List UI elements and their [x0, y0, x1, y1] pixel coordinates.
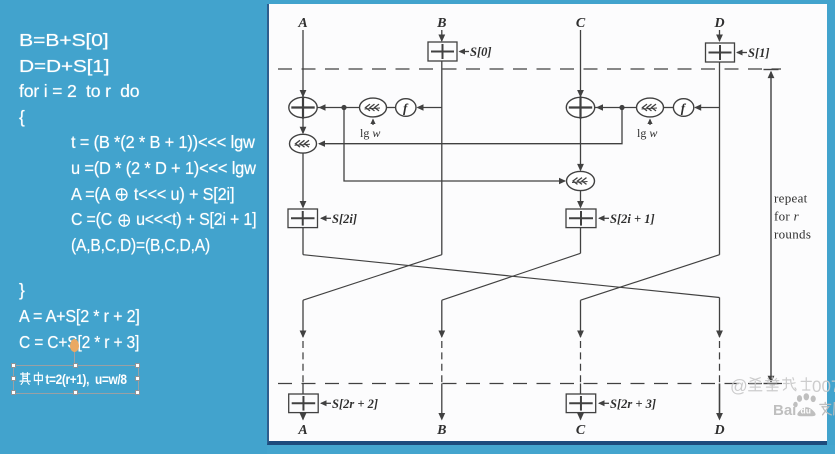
function f U3 (A row) — [396, 99, 416, 117]
pseudocode text block — [19, 32, 108, 49]
node u junction dot — [619, 105, 624, 110]
wire new C dashed continuation — [580, 341, 582, 384]
svg-text:du: du — [801, 406, 811, 416]
adder box +S[1] — [706, 43, 770, 62]
wire A input to XOR1 — [300, 30, 307, 98]
wire A below S[2i] to bend — [302, 228, 304, 255]
orange caret blob — [70, 339, 79, 352]
wire D from S[1] down to permutation bend — [719, 62, 721, 255]
selection box around caption — [13, 365, 139, 394]
wire D output arrow — [716, 384, 723, 421]
wire rot1 to f1 — [387, 107, 397, 109]
wire new D vertical with arrow — [716, 298, 723, 339]
wire XOR U1 down to rotate U4 — [300, 118, 307, 134]
white figure panel — [267, 4, 827, 445]
wire B output arrow — [438, 384, 445, 421]
text cursor rotation stem — [74, 350, 75, 365]
round boundary dashed line (top) — [278, 68, 781, 70]
label lg w with arrow (A row) — [360, 119, 380, 141]
adder box +S[2i] — [288, 209, 357, 228]
node t junction dot — [341, 105, 346, 110]
wire D input into adder S[1] — [716, 30, 723, 42]
wire rot3 output into XOR U5 — [595, 104, 637, 110]
label lg w with arrow (C row) — [637, 119, 657, 141]
rotate-left U8 (C column, amount t) — [567, 171, 595, 190]
rotate-left U6 (<<< lg w) on C row — [637, 98, 664, 117]
wire C below S[2i+1] to bend — [580, 228, 582, 254]
wire diagonal old D to new C — [581, 255, 720, 301]
wire diagonal old C to new B — [442, 253, 581, 300]
repeat-for-r-rounds span line with arrows both ends — [764, 70, 779, 384]
adder box +S[2i+1] — [566, 209, 655, 228]
wire new D dashed continuation — [719, 341, 721, 384]
wire U8 down into adder S[2i+1] — [577, 191, 584, 209]
wire C input to XOR2 — [577, 30, 584, 98]
wire B from S[0] down to permutation bend — [441, 61, 443, 255]
rotate-left U2 (<<< lg w) on A row — [360, 98, 387, 117]
XOR U1 (A xor t) — [289, 97, 317, 117]
wire new B vertical with arrow — [438, 300, 445, 338]
svg-text:Bai: Bai — [773, 402, 796, 419]
wire XOR U5 down to rotate U8 — [577, 118, 584, 171]
wire U4 down into adder S[2i] — [300, 153, 307, 208]
wire rot1 output into XOR U1 with junction to node t — [318, 104, 360, 110]
wire new C vertical with arrow — [577, 300, 584, 338]
wire diagonal old A to new D — [303, 255, 720, 298]
wire new A dashed continuation — [302, 341, 304, 384]
wire B input into adder S[0] — [438, 30, 445, 42]
wire tap from B into f1 — [417, 104, 442, 110]
watermark @圣堂武士007 — [730, 376, 835, 396]
adder box +S[0] — [428, 42, 492, 61]
svg-text:007: 007 — [812, 377, 835, 396]
rotate-left U4 (A column, amount u) — [290, 134, 317, 153]
adder box +S[2r+2] with through wire — [289, 384, 378, 421]
svg-text:@: @ — [730, 376, 748, 396]
round boundary dashed line (bottom) — [278, 383, 782, 385]
wire tap from D into f2 — [694, 104, 719, 110]
function f U7 (C row) — [673, 99, 693, 117]
wire new A vertical with arrow — [300, 300, 307, 338]
adder box +S[2r+3] with through wire — [566, 384, 656, 421]
caption 其中t=2(r+1), u=w/8 — [19, 371, 127, 387]
wire t: from node t dot down and right into U8 — [344, 108, 566, 185]
watermark Baidu Wenku logo — [773, 393, 835, 419]
wire rot3 to f2 — [664, 107, 674, 109]
wire diagonal old B to new A — [303, 255, 442, 301]
wire u: from node u dot down and left into U4 — [318, 108, 622, 147]
XOR U5 (C xor u) — [566, 97, 594, 117]
wire new B dashed continuation — [441, 341, 443, 384]
